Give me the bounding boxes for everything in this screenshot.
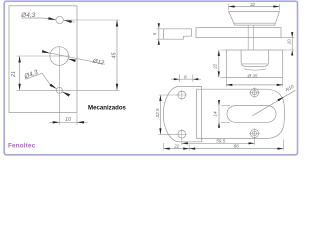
stem through bar xyxy=(248,25,253,50)
slot dim 14 xyxy=(218,101,220,128)
side: dim 32 arrow left xyxy=(229,5,235,7)
dim 6 left xyxy=(158,29,160,39)
block inner cup xyxy=(241,50,269,66)
front: dia12 arrow lower-right xyxy=(68,59,76,62)
hole left bottom xyxy=(178,130,186,138)
side: dim dia35 arrow left xyxy=(226,84,232,86)
plan: right body outline xyxy=(197,89,285,138)
svg-text:Mecanizados: Mecanizados xyxy=(88,105,127,112)
svg-text:86: 86 xyxy=(234,144,240,149)
front: top hole arrow right xyxy=(64,20,72,23)
svg-text:14: 14 xyxy=(212,111,217,117)
big circle Ø12 xyxy=(50,47,69,66)
plan: slot dim arrow top xyxy=(218,100,220,106)
hole right top (countersunk) xyxy=(250,89,258,97)
side: dim 22 arrow top xyxy=(218,50,220,56)
leader Ø12 xyxy=(43,52,105,64)
side: dim 6 arrow bottom xyxy=(158,39,160,45)
block xyxy=(226,50,282,77)
side: dim 6 arrow top xyxy=(158,23,160,29)
dim 22 bottom left xyxy=(164,143,190,150)
ext line bottom hole to right dim xyxy=(66,89,120,91)
svg-text:Ø4,3: Ø4,3 xyxy=(23,69,40,81)
front: dim 21 arrow top xyxy=(18,56,20,63)
knob trapezoid xyxy=(229,12,280,26)
front: dim 21 arrow bottom xyxy=(18,84,20,91)
plan: dim 32,5 arrow bottom xyxy=(159,128,161,134)
plan: dim 86 arrow left xyxy=(189,148,195,150)
hole top (Ø4,3) xyxy=(56,16,63,23)
svg-text:Ø12: Ø12 xyxy=(91,58,105,67)
dim 8 arrow right xyxy=(193,78,199,80)
svg-text:22: 22 xyxy=(173,144,180,149)
side: dim 10 arrow bottom xyxy=(291,50,293,56)
svg-text:32: 32 xyxy=(250,2,256,7)
dim 32 above knob xyxy=(229,6,280,8)
plan: dim 86 arrow right xyxy=(277,148,283,150)
front: dia12 arrow upper-left xyxy=(42,50,50,53)
plan: dim 59,5 arrow right xyxy=(249,142,255,144)
leader top hole left xyxy=(42,18,54,19)
slot xyxy=(227,106,276,123)
plate outline xyxy=(9,6,77,113)
side: dim 22 arrow bottom xyxy=(218,71,220,77)
plan: dim 22 arrow left xyxy=(164,148,170,150)
underline Ø4,3 top xyxy=(22,17,43,19)
front: dim 10 arrow left xyxy=(53,121,60,123)
dim 32,5 left xyxy=(159,95,161,134)
side: dim 10 arrow top xyxy=(291,32,293,38)
leader bottom hole right tail xyxy=(62,92,70,95)
svg-text:6: 6 xyxy=(152,32,157,35)
hole right bottom (countersunk) xyxy=(250,129,258,137)
arrows (dark) xyxy=(18,5,293,149)
centerline horizontal big circle / ext for 21 xyxy=(17,55,70,57)
svg-text:32,5: 32,5 xyxy=(155,108,160,117)
dim 22 left of block xyxy=(218,50,220,77)
plan: dim 32,5 arrow top xyxy=(159,95,161,101)
svg-text:Ø4,3: Ø4,3 xyxy=(20,12,35,19)
hole bottom (Ø4,3) xyxy=(56,87,62,93)
hole left top xyxy=(178,91,186,99)
cup inner bottom parallel line xyxy=(242,63,267,65)
plan: dim 59,5 arrow left xyxy=(182,142,188,144)
dim 59,5 xyxy=(182,138,255,145)
dim 10 line xyxy=(49,121,88,123)
leader bottom hole from text xyxy=(42,73,50,85)
svg-text:22: 22 xyxy=(213,63,218,70)
page border frame xyxy=(4,1,297,155)
svg-text:10: 10 xyxy=(286,39,291,45)
dim 86 xyxy=(282,140,284,151)
dim 10 right (bar bottom to block top) xyxy=(291,38,293,50)
front: bottom hole arrow right xyxy=(62,92,70,97)
dim 8 (between views) xyxy=(179,75,193,83)
side: dim 32 arrow right xyxy=(273,5,279,7)
svg-text:21: 21 xyxy=(11,71,17,78)
plan: left lobe outline xyxy=(163,86,201,141)
dim 45 line right xyxy=(116,20,118,90)
ext lines bottom dim 10 xyxy=(76,114,78,126)
dim 8 arrow left xyxy=(174,78,180,80)
svg-text:8: 8 xyxy=(184,74,187,79)
side: dim dia35 arrow right xyxy=(277,84,283,86)
dim 21 line xyxy=(19,56,21,90)
knob flange inner line xyxy=(234,22,275,24)
centerline horizontal bottom hole / ext for 21 xyxy=(17,89,70,91)
plan: radius leader arrow xyxy=(277,97,284,102)
front: bottom hole arrow left xyxy=(50,84,57,89)
front: dim 10 arrow right xyxy=(77,121,84,123)
plan: dim 22 arrow right xyxy=(183,148,189,150)
hole center tick marks xyxy=(177,87,260,139)
dim Ø35 below block xyxy=(226,84,282,86)
svg-text:Fenoltec: Fenoltec xyxy=(8,143,36,150)
knob flange bottom line xyxy=(235,24,275,26)
main bar xyxy=(196,28,281,38)
front: top hole arrow left xyxy=(48,17,56,20)
front: dim 45 arrow bottom xyxy=(116,84,118,91)
slot leader R10 xyxy=(252,90,295,116)
left piece with notch xyxy=(164,29,192,39)
ext line top hole to right dim xyxy=(66,19,120,21)
svg-text:Ø 35: Ø 35 xyxy=(247,73,258,78)
svg-text:10: 10 xyxy=(65,117,71,123)
leader top hole right tail xyxy=(64,20,75,22)
underline Ø4,3 bottom (slanted) xyxy=(26,73,43,79)
svg-text:45: 45 xyxy=(111,52,117,59)
centerline vertical through holes xyxy=(58,47,60,125)
plan: slot dim arrow bottom xyxy=(218,122,220,128)
svg-text:59,5: 59,5 xyxy=(216,139,225,144)
cup inner bottom line xyxy=(244,69,266,70)
front: dim 45 arrow top xyxy=(116,20,118,27)
